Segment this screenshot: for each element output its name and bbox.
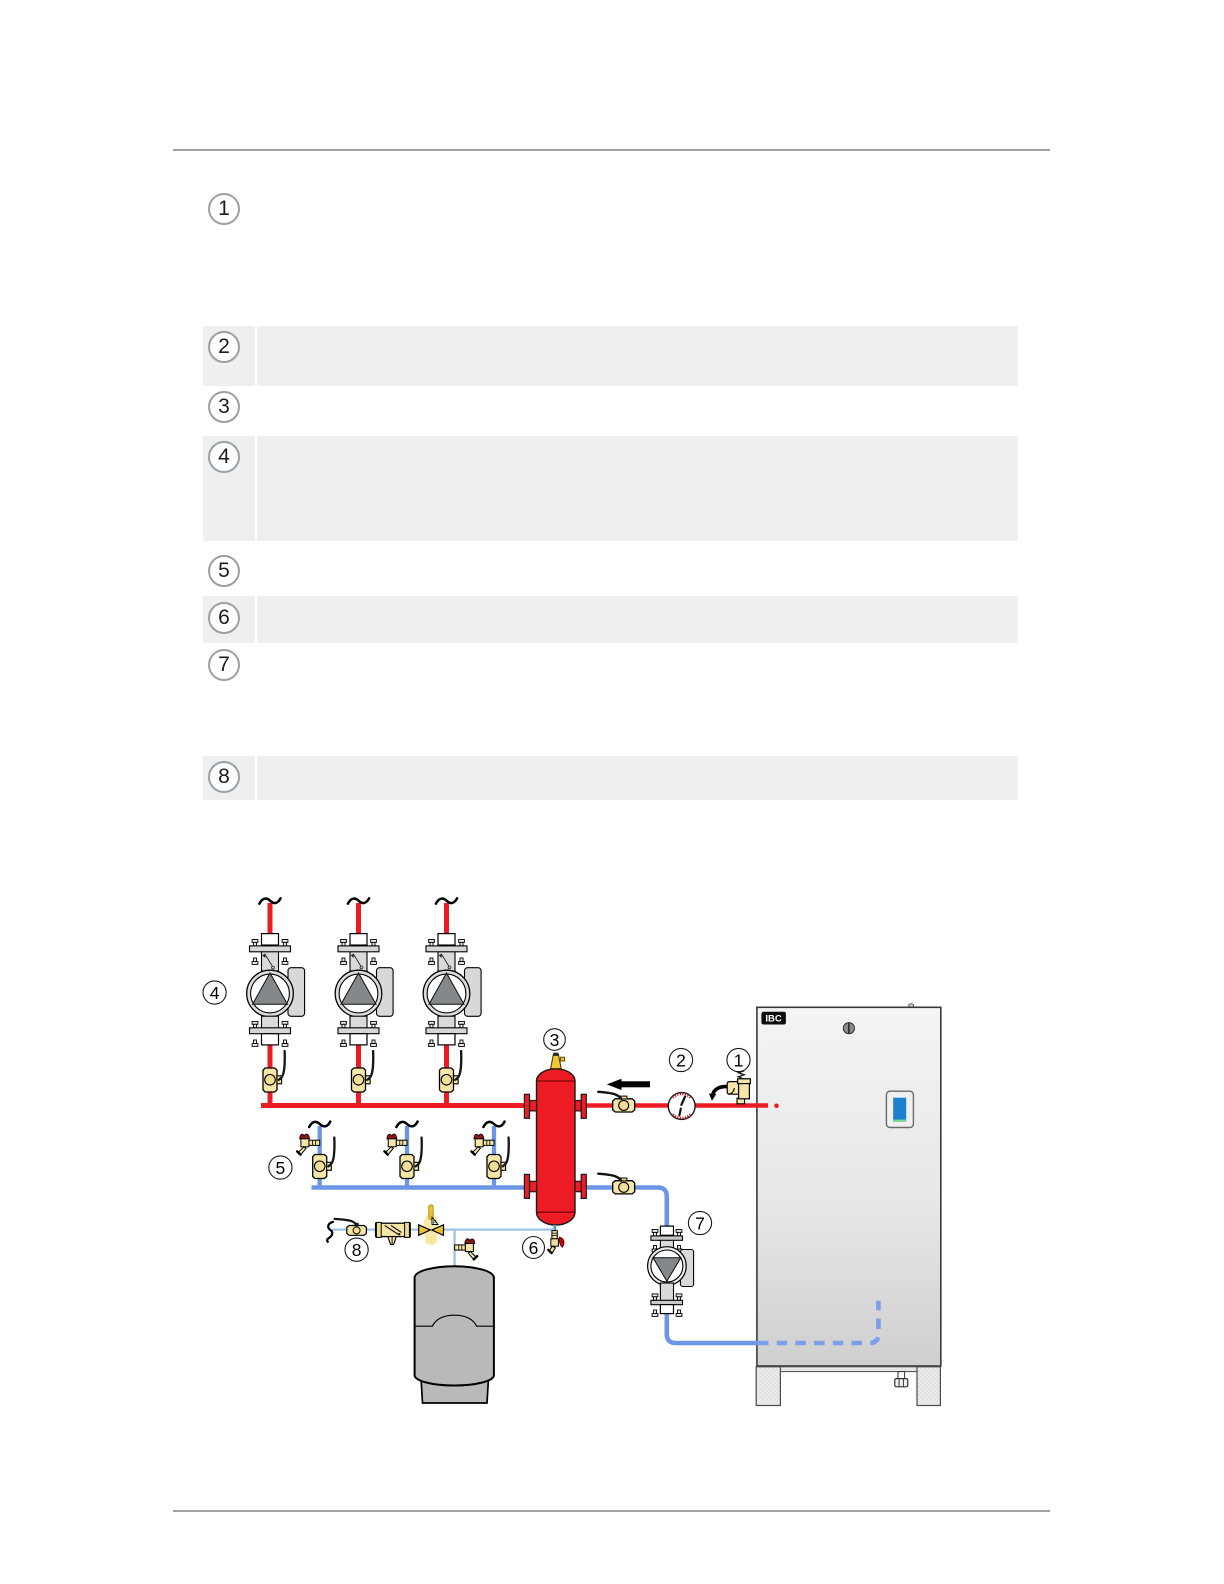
- pressure reducing valve: [419, 1205, 444, 1245]
- backflow preventer: [376, 1222, 411, 1244]
- svg-text:IBC: IBC: [765, 1014, 782, 1025]
- hydraulic separator: [537, 1069, 576, 1225]
- svg-text:1: 1: [734, 1050, 744, 1070]
- blue return header: [312, 1185, 527, 1190]
- zone pump isolation valve 3: [440, 1051, 462, 1092]
- air vent on separator: [551, 1053, 565, 1069]
- label circle 8: [345, 1238, 368, 1261]
- list number 4: [208, 441, 240, 473]
- label circle 6: [523, 1237, 545, 1259]
- list number 6: [208, 602, 240, 634]
- boiler pump (7): [648, 1226, 694, 1316]
- bottom rule: [173, 1510, 1050, 1512]
- zone pump isolation valve 1: [263, 1051, 285, 1092]
- pipe break squiggle at fill line: [327, 1222, 333, 1242]
- supply pipe risers with break squiggles: [259, 898, 457, 934]
- fill valve (ball): [335, 1219, 367, 1235]
- list number 7: [208, 649, 240, 681]
- table row 4 band (text cell): [257, 436, 1018, 541]
- zone pump P1: [247, 934, 305, 1047]
- drain faucet on expansion line: [455, 1239, 478, 1260]
- expansion tank: [415, 1266, 494, 1403]
- table row 2 band (text cell): [257, 326, 1018, 386]
- list number 1: [208, 193, 240, 225]
- temperature gauge: [668, 1093, 695, 1120]
- expansion line tee down to tank: [453, 1230, 455, 1268]
- table row 6 band (number cell): [203, 596, 255, 643]
- red supply header: [261, 1103, 526, 1108]
- blue return pipe pump to boiler: [667, 1313, 758, 1343]
- label circle 4: [203, 981, 226, 1004]
- table row 8 band (number cell): [203, 756, 255, 800]
- separator drain valve (6): [548, 1231, 564, 1254]
- svg-text:8: 8: [352, 1240, 362, 1260]
- table row 4 band (number cell): [203, 436, 255, 541]
- expansion line (thin): [332, 1228, 554, 1230]
- svg-text:3: 3: [550, 1030, 560, 1050]
- separator upper left port: [524, 1094, 536, 1118]
- zone pump P2: [335, 934, 393, 1047]
- svg-text:4: 4: [210, 983, 220, 1003]
- list number 5: [208, 555, 240, 587]
- table row 6 band (text cell): [257, 596, 1018, 643]
- return branch 2: [384, 1122, 421, 1188]
- svg-text:2: 2: [676, 1050, 686, 1070]
- zone pump isolation valve 2: [352, 1051, 374, 1092]
- boiler right foot: [917, 1367, 940, 1406]
- label circle 7: [688, 1211, 711, 1234]
- flow direction arrow: [607, 1079, 650, 1090]
- list number 8: [208, 761, 240, 793]
- svg-text:5: 5: [276, 1158, 286, 1178]
- svg-text:6: 6: [529, 1238, 539, 1258]
- boiler drain valve: [895, 1372, 908, 1387]
- boiler left foot: [756, 1367, 780, 1406]
- return branch 1: [297, 1122, 334, 1188]
- red supply pipe to boiler: [585, 1103, 768, 1108]
- list number 3: [208, 391, 240, 423]
- red dot at boiler connection: [774, 1104, 779, 1109]
- label circle 3: [544, 1029, 566, 1051]
- list number 2: [208, 331, 240, 363]
- table row 2 band (number cell): [203, 326, 255, 386]
- zone pump P3: [423, 934, 481, 1047]
- table row 8 band (text cell): [257, 756, 1018, 800]
- separator bottom stub: [553, 1225, 556, 1231]
- boiler display panel: [886, 1091, 913, 1127]
- label circle 2: [669, 1048, 692, 1071]
- separator lower right port: [575, 1174, 586, 1198]
- top rule: [173, 149, 1050, 151]
- separator upper right port: [575, 1094, 586, 1118]
- dashed return inside boiler: [758, 1301, 878, 1343]
- separator lower left port: [524, 1174, 536, 1198]
- ball valve on return from separator: [598, 1174, 635, 1194]
- pressure relief valve (1): [709, 1071, 750, 1104]
- svg-text:7: 7: [695, 1213, 705, 1233]
- pump drop pipes: [270, 1044, 447, 1106]
- return branch 3: [471, 1122, 508, 1188]
- boiler top screw: [843, 1023, 854, 1034]
- svg-text:P: P: [433, 1220, 437, 1226]
- label circle 1: [727, 1048, 750, 1071]
- blue return pipe separator to corner: [585, 1188, 667, 1228]
- label circle 5: [269, 1156, 292, 1179]
- boiler IBC logo: [761, 1012, 786, 1025]
- boiler base strip: [780, 1367, 918, 1372]
- ball valve on supply to boiler: [598, 1092, 635, 1112]
- boiler cabinet: [757, 1004, 941, 1366]
